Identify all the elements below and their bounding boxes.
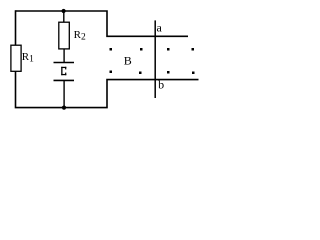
wire: capacitor bottom plate to bottom rail: [63, 80, 65, 107]
svg-text:B: B: [124, 53, 132, 67]
junction dot (bottom node joining capacitor branch): [62, 106, 66, 110]
capacitor C top plate: [54, 62, 75, 64]
dots inside network B (top row): [110, 48, 195, 51]
svg-text:b: b: [158, 77, 164, 91]
resistor R2: [59, 22, 86, 49]
wire: left side, bottom run, step up to network B bottom edge: [16, 10, 199, 107]
wire: top run with step down to network B top edge: [16, 11, 189, 36]
svg-text:R2: R2: [74, 29, 86, 43]
wire: terminal line a-b through network B: [154, 20, 156, 98]
junction dot (top node joining R2 branch): [62, 9, 66, 13]
svg-text:a: a: [157, 21, 163, 35]
svg-text:R1: R1: [22, 51, 34, 65]
capacitor C value label: [61, 67, 66, 75]
dots inside network B (bottom row): [110, 71, 195, 75]
resistor R1: [11, 45, 34, 71]
capacitor C bottom plate: [54, 79, 75, 81]
wire: R2 branch from top junction: [63, 11, 65, 23]
wire: R2 bottom to capacitor top plate: [63, 49, 65, 63]
